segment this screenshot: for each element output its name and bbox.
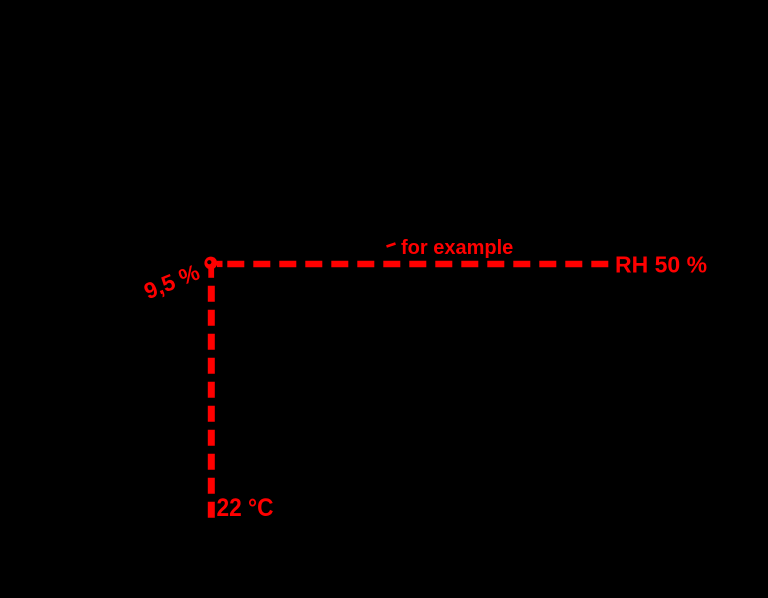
svg-text:RH 50 %: RH 50 % <box>615 252 707 278</box>
svg-text:for example: for example <box>401 237 513 259</box>
svg-text:22 °C: 22 °C <box>217 494 274 522</box>
